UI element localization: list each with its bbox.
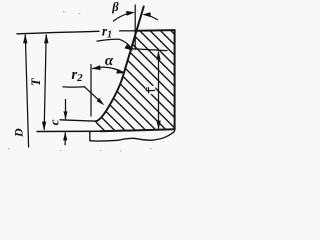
svg-text:β: β xyxy=(111,0,119,14)
svg-text:c: c xyxy=(46,119,61,125)
svg-text:α: α xyxy=(105,53,114,69)
svg-text:D: D xyxy=(11,128,25,138)
